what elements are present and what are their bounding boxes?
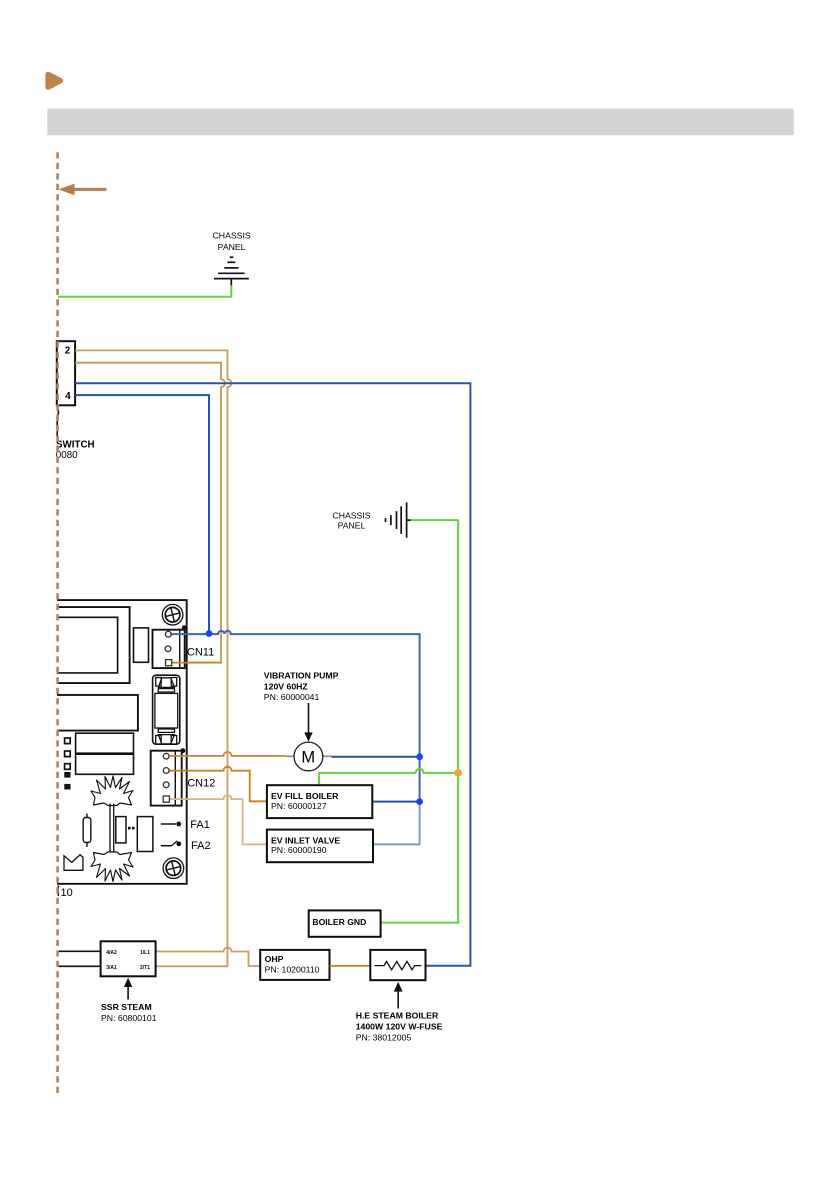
svg-text:EV FILL BOILER: EV FILL BOILER	[271, 791, 339, 801]
banner mark	[64, 855, 83, 871]
svg-text:0080: 0080	[56, 450, 78, 461]
wire: light tan CN12 pin4 to EV INLET VALVE	[169, 795, 267, 844]
chassis panel ground G1 label	[213, 231, 251, 252]
junction dot pump	[416, 753, 423, 760]
svg-text:CHASSIS: CHASSIS	[332, 511, 370, 521]
pointer arrow to SSR	[127, 985, 129, 1000]
control board outline	[57, 600, 187, 884]
box OHP	[260, 950, 329, 980]
test point FA2	[161, 840, 211, 852]
junction dot green bus	[454, 769, 462, 777]
svg-text:SSR STEAM: SSR STEAM	[101, 1002, 152, 1012]
connector CN12 body	[151, 751, 182, 806]
relay SSR STEAM	[101, 941, 156, 976]
box EV INLET VALVE	[267, 830, 373, 863]
heater H.E STEAM BOILER box	[370, 950, 425, 980]
heatsink bottom splat	[91, 852, 133, 882]
svg-text:4: 4	[65, 391, 71, 402]
capacitor block mid	[57, 695, 138, 731]
relay K1	[153, 675, 180, 744]
wire: navy EV FILL BOILER to junction	[372, 801, 419, 803]
svg-text:PN: 10200110: PN: 10200110	[265, 965, 320, 975]
transformer T1 inner	[57, 617, 118, 673]
svg-text:3/A1: 3/A1	[106, 965, 117, 971]
svg-text:CN12: CN12	[187, 777, 215, 789]
pointer arrow to heater	[397, 991, 399, 1009]
svg-text:M: M	[301, 748, 315, 766]
svg-text:4/A2: 4/A2	[106, 950, 117, 956]
chassis panel ground G1 symbol	[214, 257, 249, 285]
wire: blue net switch pin4 down to CN11 junction	[75, 395, 209, 633]
wire: navy pump to junction	[332, 756, 420, 758]
switch symbol fragment	[57, 408, 58, 439]
svg-text:CN11: CN11	[187, 646, 214, 658]
junction dot EV fill	[416, 798, 423, 805]
fold-line arrow	[59, 184, 107, 196]
fold dashed line	[56, 152, 59, 1097]
svg-text:EV INLET VALVE: EV INLET VALVE	[271, 835, 340, 845]
chassis panel ground G2 symbol	[386, 502, 412, 537]
svg-text:10: 10	[61, 887, 73, 899]
label H.E STEAM BOILER	[356, 1011, 443, 1043]
svg-text:CHASSIS: CHASSIS	[213, 231, 251, 241]
svg-text:FA1: FA1	[190, 819, 210, 831]
solder pads left edge	[64, 738, 70, 790]
wire: green EV fill top to bus (hop over blue)	[319, 769, 458, 786]
box EV FILL BOILER	[267, 785, 372, 818]
heatsink top splat	[91, 776, 133, 806]
svg-text:120V 60HZ: 120V 60HZ	[264, 681, 309, 691]
svg-text:1/L1: 1/L1	[140, 950, 150, 956]
wire: tan SSR 1/L1 to OHP (hop over vertical B)	[156, 948, 261, 967]
svg-text:BOILER GND: BOILER GND	[312, 917, 366, 927]
wire: green chassis G2 down right side	[381, 520, 459, 923]
pointer arrow to pump	[308, 703, 310, 734]
connector CN11 body	[153, 630, 185, 668]
wire: dark orange segment CN11 square pin	[172, 662, 221, 664]
heatsink stem	[109, 804, 111, 854]
svg-text:OHP: OHP	[265, 954, 284, 964]
svg-text:PN: 38012005: PN: 38012005	[356, 1032, 412, 1042]
test point FA1	[161, 819, 210, 831]
component block 2	[137, 817, 153, 852]
box BOILER GND	[309, 910, 381, 936]
connector SWITCH (clipped)	[57, 341, 75, 405]
capacitor C1	[86, 814, 88, 848]
relay block lower	[76, 733, 134, 774]
svg-text:PN: 60000127: PN: 60000127	[271, 801, 327, 811]
component box right of transformer	[134, 628, 149, 662]
screw hole top	[162, 604, 183, 625]
wire: blue net CN11 pin1 to vertical bus (hops over orange pair)	[172, 631, 420, 757]
wire: tan net switch pin2 to SSR 2/T1 (vertical B, hops over blue)	[75, 350, 231, 966]
svg-text:PN: 60000190: PN: 60000190	[271, 845, 327, 855]
svg-text:1400W 120V W-FUSE: 1400W 120V W-FUSE	[356, 1022, 443, 1032]
wire: blue net switch pin3 to heater (long right vertical)	[75, 383, 470, 965]
connector CN11 pins	[165, 625, 187, 666]
wire: blue vertical bus middle	[419, 757, 421, 802]
wire: tan net switch to CN11 square (vertical A, hops over blue)	[75, 363, 225, 663]
svg-text:H.E STEAM BOILER: H.E STEAM BOILER	[356, 1011, 439, 1021]
label VIBRATION PUMP	[264, 670, 339, 702]
component block	[116, 817, 126, 843]
svg-text:PANEL: PANEL	[218, 242, 246, 252]
wire: dark orange CN12 pin2 to EV FILL BOILER	[169, 767, 267, 802]
svg-text:2: 2	[65, 345, 71, 356]
svg-text:SWITCH: SWITCH	[56, 440, 95, 451]
screw hole bottom	[163, 858, 184, 879]
svg-text:2/T1: 2/T1	[140, 965, 150, 971]
play button marker	[48, 75, 60, 88]
wire: light blue bus to EV INLET VALVE	[373, 802, 420, 845]
wire: green earth to chassis panel G1	[58, 285, 231, 297]
chassis panel ground G2 label	[332, 511, 370, 531]
resistor element	[375, 961, 422, 969]
board label 10	[57, 886, 59, 897]
connector CN12 pins	[163, 748, 185, 802]
toolbar bar	[47, 109, 793, 136]
motor M pump	[286, 742, 332, 771]
svg-text:FA2: FA2	[191, 840, 211, 852]
svg-text:VIBRATION PUMP: VIBRATION PUMP	[264, 670, 339, 680]
wire: SSR coil leads black	[58, 950, 101, 952]
wire: dark orange OHP to heater	[330, 965, 371, 967]
svg-text:PN: 60000041: PN: 60000041	[264, 692, 320, 702]
svg-text:PN: 60800101: PN: 60800101	[101, 1013, 157, 1023]
transformer T1 outer	[57, 607, 130, 683]
svg-text:PANEL: PANEL	[338, 521, 366, 531]
wire: orange CN12 pin1 to pump (hop over vertical B)	[169, 752, 286, 756]
junction dot CN11	[206, 630, 213, 637]
